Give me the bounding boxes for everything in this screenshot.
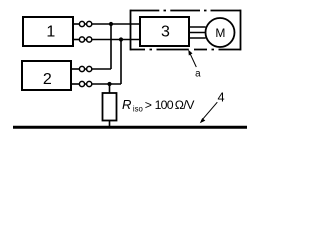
svg-text:R: R: [122, 97, 131, 112]
svg-text:a: a: [195, 69, 201, 80]
wire resistor stub top: [109, 84, 111, 93]
wire vertical V2: [120, 40, 122, 85]
box 2: [22, 61, 71, 90]
box 1: [23, 17, 73, 46]
junction dot node V1/L1: [109, 22, 113, 26]
wire net L1 top from box1 to box3: [71, 24, 206, 127]
terminal circles box1 bottom: [79, 37, 84, 42]
terminal circles box1 top: [79, 21, 91, 86]
svg-text:M: M: [215, 26, 225, 40]
svg-text:3: 3: [161, 23, 170, 40]
junction dot node resistor/L4: [107, 82, 111, 86]
svg-text:2: 2: [43, 71, 52, 88]
label Riso > 100 Ohm/V: [122, 97, 195, 113]
ground line 4 (earth): [13, 126, 247, 129]
leader arrow to 4: [200, 102, 218, 123]
leader arrow to a: [188, 50, 196, 67]
svg-text:100: 100: [155, 98, 174, 112]
wires motor links: [189, 26, 206, 28]
wire net L2 bottom from box1 to box3: [73, 39, 79, 41]
terminal circles box2 top: [79, 66, 84, 71]
svg-text:iso: iso: [133, 104, 144, 113]
wire net L4 box2 bottom: [71, 83, 79, 85]
motor M: [206, 18, 235, 47]
wire vertical V1: [110, 24, 112, 69]
svg-text:1: 1: [46, 23, 55, 40]
resistor Riso: [103, 93, 117, 121]
svg-text:Ω/V: Ω/V: [175, 98, 195, 112]
junction dot node V2/L2: [119, 37, 123, 41]
svg-text:4: 4: [217, 89, 224, 104]
enclosure a (dash-dot shield box): [131, 10, 241, 51]
box 3: [140, 17, 189, 46]
svg-text:>: >: [145, 98, 152, 112]
wire net L3 box2 top: [71, 68, 79, 70]
terminal circles box2 bottom: [79, 81, 84, 86]
wire resistor stub bottom: [109, 121, 111, 127]
